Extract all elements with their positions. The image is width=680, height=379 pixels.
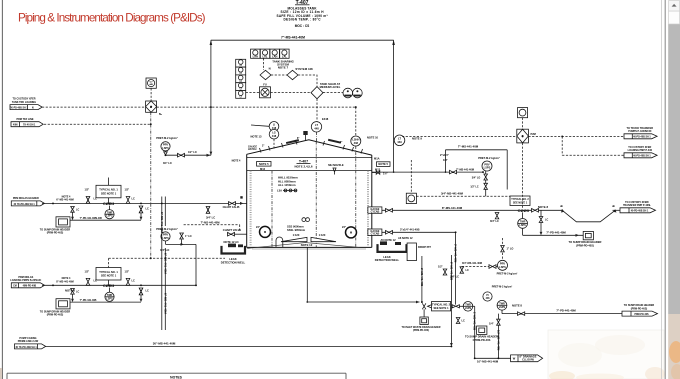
svg-text:40-PD-40B SH 1: 40-PD-40B SH 1 [633,155,651,158]
svg-text:LT: LT [315,123,318,127]
svg-text:MEDIUM LEVEL: MEDIUM LEVEL [320,85,341,89]
svg-text:1/2" LC: 1/2" LC [470,185,479,188]
svg-text:LOADING PMP P-436: LOADING PMP P-436 [628,149,653,152]
instrument air line vertical [150,112,152,258]
svg-text:LC: LC [146,289,150,293]
svg-text:TYPICAL NO. 1: TYPICAL NO. 1 [99,188,118,192]
svg-text:A5 NOTE 12: A5 NOTE 12 [380,238,396,242]
svg-text:1:120: 1:120 [319,233,326,237]
svg-text:NOTE 8: NOTE 8 [538,205,549,209]
svg-text:LSPS: LSPS [162,146,169,150]
svg-text:NOTE 12: NOTE 12 [301,243,313,247]
svg-text:LAL: LAL [263,55,268,59]
svg-text:3/4" LO: 3/4" LO [472,176,481,179]
off-page flag RF3 [620,201,656,213]
radar gauge right of tank [394,135,422,146]
svg-text:1/2"-MS-441-40M: 1/2"-MS-441-40M [496,330,500,350]
signal wire column to agitator [246,91,260,93]
svg-text:NOTE 4: NOTE 4 [232,160,241,163]
isolation valve pair upstream [86,197,97,204]
svg-text:CHART VALVE: CHART VALVE [223,228,242,232]
dashed interconnect y=258 [109,257,225,259]
roof nozzle black [303,131,307,135]
pump P1 [96,206,114,220]
control valve (diamond in square) on transfer line [517,129,536,143]
drain valve with arrow [139,206,149,220]
photo blur bottom right [548,330,665,379]
svg-text:CM: CM [13,286,17,288]
PSV PRV2 on riser [156,227,196,252]
vapor line from tank top y=172 [372,145,507,190]
svg-text:LAH: LAH [253,55,258,59]
pipe lower header y=285 [42,284,196,286]
LO valve under P5 [489,314,500,359]
off-page flag RF1 [624,127,657,139]
svg-text:LSHH: LSHH [352,137,359,141]
svg-text:2"-MS-441-40M: 2"-MS-441-40M [420,268,424,286]
svg-text:A6 NOTE 12: A6 NOTE 12 [398,236,413,240]
svg-text:LSPS: LSPS [499,265,506,269]
svg-text:CYCAB: CYCAB [371,211,380,214]
off-page flag RF2 [624,146,657,158]
svg-text:P2M: P2M [531,132,536,136]
agitator unit square [260,83,271,98]
svg-text:LSPS: LSPS [106,297,113,300]
svg-text:NOTE 13: NOTE 13 [250,134,262,138]
center sump arch [276,237,283,247]
svg-text:N: N [269,67,271,71]
svg-text:LOR: LOR [96,216,102,220]
svg-text:NOTE 12 A4: NOTE 12 A4 [223,240,239,244]
off-page flag F1 custody transfer [10,98,42,110]
signal drop to LSHH [355,107,357,136]
svg-text:LSPS: LSPS [484,166,491,170]
svg-text:1" LO: 1" LO [507,246,514,250]
svg-text:PRIME LINE 2-2W: PRIME LINE 2-2W [18,340,39,343]
drain to sump box 2 [40,288,141,316]
sump header box small [465,326,498,342]
svg-text:3/4" LO: 3/4" LO [160,248,169,252]
note box on left wall [257,162,271,167]
svg-text:7"-PD-441-40B: 7"-PD-441-40B [80,299,97,302]
svg-text:DETECTION WELL: DETECTION WELL [375,258,400,262]
pipe L1 dashed to tank [42,106,356,108]
NOTES box [7,373,346,379]
PSV PRV3 [456,156,500,196]
svg-text:PRET-M-2 kg/cm²: PRET-M-2 kg/cm² [497,271,518,275]
typical assembly 2 with pump P4 [422,302,476,359]
svg-text:E448: E448 [322,117,329,121]
svg-text:7"-PD-441-40M: 7"-PD-441-40M [546,230,566,234]
svg-text:PRET-M-2 kg/cm²: PRET-M-2 kg/cm² [478,156,500,160]
svg-text:LI: LI [240,89,242,91]
svg-text:2": 2" [262,146,264,148]
drain to sump box 1 [40,207,141,235]
vertical 8" riser with arrow onto long line [438,255,453,346]
svg-text:DETECTION WELL: DETECTION WELL [221,260,246,264]
interlock diamond 2 [287,70,298,79]
float circles [302,218,306,222]
internal stilling wells [271,171,273,247]
scrollbar [668,0,680,379]
svg-text:NOTE 5: NOTE 5 [259,162,269,166]
LC valve below line [490,213,499,223]
svg-text:CTRM-PD-40S: CTRM-PD-40S [473,338,491,342]
svg-text:LSPS: LSPS [465,307,472,310]
svg-text:NOTE 2,4,5,6: NOTE 2,4,5,6 [295,164,313,168]
svg-text:LC: LC [146,207,150,211]
svg-text:3"x1/4"-441-40B: 3"x1/4"-441-40B [400,227,420,231]
svg-text:3/4"-MS-441-40M: 3/4"-MS-441-40M [441,192,464,196]
svg-text:DESIGN TEMP. : 80°C: DESIGN TEMP. : 80°C [284,17,322,21]
svg-text:LT: LT [398,137,401,141]
svg-text:1/2": 1/2" [438,265,444,269]
svg-text:PRM MOLAS HEADER: PRM MOLAS HEADER [13,197,39,200]
roof nozzle ticks [260,140,363,154]
svg-text:NOTE 8: NOTE 8 [512,304,522,308]
svg-text:40 TK-PD-40B SH 1: 40 TK-PD-40B SH 1 [13,203,35,206]
valve pair near tank [206,207,215,220]
svg-text:NOTE 7: NOTE 7 [278,66,289,70]
svg-text:(PRM-PD-40S): (PRM-PD-40S) [576,243,594,247]
floor slope wedges [281,237,307,241]
svg-text:SYSTEM 448: SYSTEM 448 [295,67,313,71]
dashed branch PRV4 [462,238,518,275]
svg-text:1/2": 1/2" [85,271,90,274]
svg-text:NOTE 9: NOTE 9 [412,136,422,140]
drain valve with arrow lower [139,288,149,302]
heater coil circles [256,225,357,238]
svg-text:30"-MS-441-40M: 30"-MS-441-40M [153,342,176,346]
svg-text:dn: dn [612,204,616,208]
svg-text:PRM TKF LINE: PRM TKF LINE [16,118,33,121]
svg-text:LC: LC [76,209,79,212]
signal wire diamond3 down [316,99,318,122]
right wall vent fitting [372,171,389,176]
tank title block T-407 [277,0,328,28]
svg-text:3/4" LC: 3/4" LC [206,215,215,219]
leak detection well right [375,238,407,262]
svg-text:TANK TRK LOADING: TANK TRK LOADING [12,101,36,104]
instrument square row (4 shared alarm units) [251,49,290,59]
svg-text:7"-MS-441-40M: 7"-MS-441-40M [201,220,221,224]
svg-text:448: 448 [272,134,277,138]
svg-text:1/4": 1/4" [443,158,449,162]
svg-text:1" LO: 1" LO [185,235,192,238]
inlet waste drain box [401,309,440,332]
svg-text:(PRM-PD-40S): (PRM-PD-40S) [47,314,64,317]
svg-text:3/4" LO: 3/4" LO [163,162,172,165]
riser pipes with rotated label [160,197,168,331]
drainage collection line [475,355,543,364]
svg-text:1/4": 1/4" [489,322,495,326]
svg-text:1/2": 1/2" [85,188,90,191]
slide left border [1,0,3,379]
roof handrail bars [286,139,299,144]
svg-text:(PRM-PD-40S): (PRM-PD-40S) [413,329,429,332]
svg-text:LC: LC [94,278,98,282]
level transmitter LT [311,117,328,142]
pump P2 [105,288,114,302]
tank drain line y=232 [368,227,458,304]
svg-text:SEE NOTE 1: SEE NOTE 1 [101,191,117,195]
svg-text:CLLOV/W: CLLOV/W [522,358,534,362]
svg-text:HATCH: HATCH [248,148,257,151]
off-page flag F2 [11,118,43,127]
drop pit drain vertical [420,256,424,303]
svg-text:40-PD-40B SH 1: 40-PD-40B SH 1 [633,136,651,139]
chart calib valve near tank inlet [223,160,244,210]
svg-text:T-407: T-407 [299,160,308,164]
transfer line dashed to flags [402,135,517,137]
svg-text:7"-MS-441-40M: 7"-MS-441-40M [458,145,479,149]
svg-text:40M: 40M [13,124,18,127]
svg-text:1:120: 1:120 [293,233,300,237]
svg-text:TK-PD-40B SH 1: TK-PD-40B SH 1 [10,107,29,110]
signal wire to hand switches [323,91,343,93]
off-page flag F3 molasses header [11,197,44,206]
level switch chain LSA [277,188,297,192]
signal wire to diamond 3 [298,75,317,87]
pipe main inlet y=203 [42,202,247,204]
svg-text:448: 448 [314,127,319,131]
svg-text:PRET-M-2 kg/cm²: PRET-M-2 kg/cm² [492,284,513,288]
svg-text:10"-MS-441-40M: 10"-MS-441-40M [477,360,499,364]
svg-text:8": 8" [297,138,299,140]
level switch LSHH [351,136,379,247]
leak detection well left [221,240,246,264]
svg-text:PI: PI [486,295,489,297]
svg-text:PUMPS P-434/B/C/D: PUMPS P-434/B/C/D [628,130,651,133]
typical detail box 1 [85,178,130,204]
level instrument square top right [518,108,528,130]
svg-text:M12: M12 [260,167,266,171]
tank bottom drain to typical assembly [306,247,419,303]
svg-text:dn: dn [560,204,564,208]
hand switch circles HS [343,88,353,98]
svg-text:3/4" LC: 3/4" LC [490,219,499,223]
svg-text:LI: LI [240,81,242,83]
off-page flag F4 [10,276,44,288]
instrument square LIC [146,78,156,101]
interlock diamond 3 [311,87,323,99]
signal wire square row to interlock [263,58,265,70]
svg-text:FU: FU [263,83,267,87]
small LC valves on right column [450,267,469,279]
wall ladder strips [250,171,252,247]
svg-text:SEE NOTE 1: SEE NOTE 1 [433,306,449,310]
svg-text:CØØ3: CØØ3 [518,208,530,213]
svg-text:LSPS: LSPS [162,236,169,240]
svg-text:449: 449 [397,140,402,144]
svg-text:6" MS-441-40M: 6" MS-441-40M [160,212,164,233]
svg-text:DROP PIT: DROP PIT [418,245,431,249]
svg-text:6"-MS-441-40M: 6"-MS-441-40M [56,199,73,202]
svg-text:3"-MS-441-40M: 3"-MS-441-40M [454,244,458,262]
level gauge circles LI/LG [250,122,278,149]
svg-text:LSPS: LSPS [519,224,526,227]
svg-text:448: 448 [354,141,359,145]
svg-text:LI: LI [240,65,242,67]
svg-text:6" MS-441-40M: 6" MS-441-40M [164,253,168,274]
svg-text:MH NOZZLE: MH NOZZLE [328,163,344,167]
PSV PRV1 [156,136,211,165]
svg-text:SEE NOTE 1: SEE NOTE 1 [101,274,117,278]
pump P3 [518,212,602,247]
svg-text:LC: LC [545,219,548,222]
svg-text:SEE NOTE 1: SEE NOTE 1 [513,202,528,205]
svg-text:(PRM-PD-40S): (PRM-PD-40S) [47,232,64,235]
svg-text:7"-PD-441-40M: 7"-PD-441-40M [556,308,576,312]
tank floor profile [247,243,361,249]
svg-text:7"-MS-441-40M: 7"-MS-441-40M [281,36,305,40]
svg-text:CHART CALIB: CHART CALIB [223,206,240,209]
pump suction main line y=210 [368,206,562,214]
svg-text:LSPS: LSPS [106,215,113,218]
svg-text:PRM-PD-40S: PRM-PD-40S [634,313,649,316]
svg-text:LOADING PMPS B-225/A/C: LOADING PMPS B-225/A/C [10,279,41,282]
svg-text:M1A: M1A [374,157,380,161]
svg-text:3/4"-MS-441-40M: 3/4"-MS-441-40M [462,262,482,265]
svg-text:TRANSFER PMP P-436L: TRANSFER PMP P-436L [623,204,651,207]
svg-text:40-PD-40B SH 1: 40-PD-40B SH 1 [631,210,649,213]
off-page flag F5 pump casing prime [15,337,46,349]
svg-text:LI: LI [240,73,242,75]
expansion loop swoosh [560,204,620,222]
control valve (diamond in square) on L1 [146,101,163,116]
svg-text:1/2": 1/2" [125,271,130,274]
svg-text:6" MS-441-40M: 6" MS-441-40M [164,293,168,314]
dashed level line y=196 [416,195,510,197]
svg-text:PRET-M-2 kg/cm²: PRET-M-2 kg/cm² [156,227,178,231]
svg-text:LC: LC [76,290,79,293]
svg-text:1/2" LO: 1/2" LO [188,151,197,154]
branch vertical to lower header [195,244,197,285]
svg-text:40M-PD-40B: 40M-PD-40B [23,285,37,288]
branch to custody flag [561,136,563,155]
svg-text:(PRM-PD-40S): (PRM-PD-40S) [631,307,648,310]
svg-text:CYCAB: CYCAB [371,233,380,236]
svg-text:L3A: L3A [277,188,282,192]
svg-text:SSSL 9050mm: SSSL 9050mm [287,228,306,232]
svg-text:7"-PD-441-40B: 7"-PD-441-40B [80,217,97,220]
pump discharge line to sump flag [502,308,622,315]
svg-text:40 TK-PD-40B SH 1: 40 TK-PD-40B SH 1 [15,346,37,349]
svg-text:LC: LC [466,268,470,272]
instrument square column (5 DCS points) [236,59,246,98]
slide right border [660,0,662,379]
flush square instrument [406,160,416,204]
svg-text:8"-MS-441-40M: 8"-MS-441-40M [442,206,463,210]
svg-text:LSPS: LSPS [499,306,506,309]
svg-text:LAH: LAH [272,55,277,59]
svg-text:NOTE 5: NOTE 5 [378,162,388,166]
svg-text:PRET-M-2 kg/cm²: PRET-M-2 kg/cm² [156,136,178,140]
svg-text:Piping & Instrumentation Diagr: Piping & Instrumentation Diagrams (P&IDs… [18,11,206,24]
svg-text:8"-MS-441-40M: 8"-MS-441-40M [449,262,453,280]
svg-text:8"-MS-441-40M: 8"-MS-441-40M [56,281,73,284]
svg-text:1/2": 1/2" [125,188,130,191]
svg-text:LC: LC [132,278,136,282]
signal wire [271,74,287,76]
PSV discharge dashed 7" [184,220,247,236]
interlock diamond 1 [260,70,271,79]
svg-text:LI: LI [240,96,242,98]
svg-text:TK-40 SH 1: TK-40 SH 1 [23,124,36,127]
svg-text:MOC : CS: MOC : CS [295,24,309,28]
typical box 3 [510,196,530,206]
typical detail box 2 [85,268,130,286]
svg-text:7"-MS-441-40M: 7"-MS-441-40M [456,169,474,172]
vent header pipe 7"-MS-441-40M [210,36,395,173]
svg-text:TYPICAL NO. 1: TYPICAL NO. 1 [99,270,118,274]
svg-text:ALL 1150mm: ALL 1150mm [278,183,296,187]
svg-text:NOTES: NOTES [170,375,182,379]
pipe L2 dashed [44,123,151,125]
svg-text:NOTE 10: NOTE 10 [367,136,379,140]
pump P5 with note [483,284,523,313]
pipe bottom long run 30" [45,345,451,347]
svg-text:2": 2" [340,142,342,144]
LC fitting below assembly [456,318,465,324]
drop pit [407,243,416,261]
valve pairs lower header [86,278,135,285]
svg-text:1"-MS-441-40M: 1"-MS-441-40M [473,312,477,330]
svg-text:LC: LC [462,319,466,323]
svg-text:2"x1/4": 2"x1/4" [440,153,450,157]
svg-text:LAL: LAL [282,55,287,59]
tank T-407 shell [247,140,372,249]
signal wire agitator to diamond3 [271,91,312,93]
off-page flag RF4 [622,304,658,316]
svg-text:LC: LC [132,197,136,201]
